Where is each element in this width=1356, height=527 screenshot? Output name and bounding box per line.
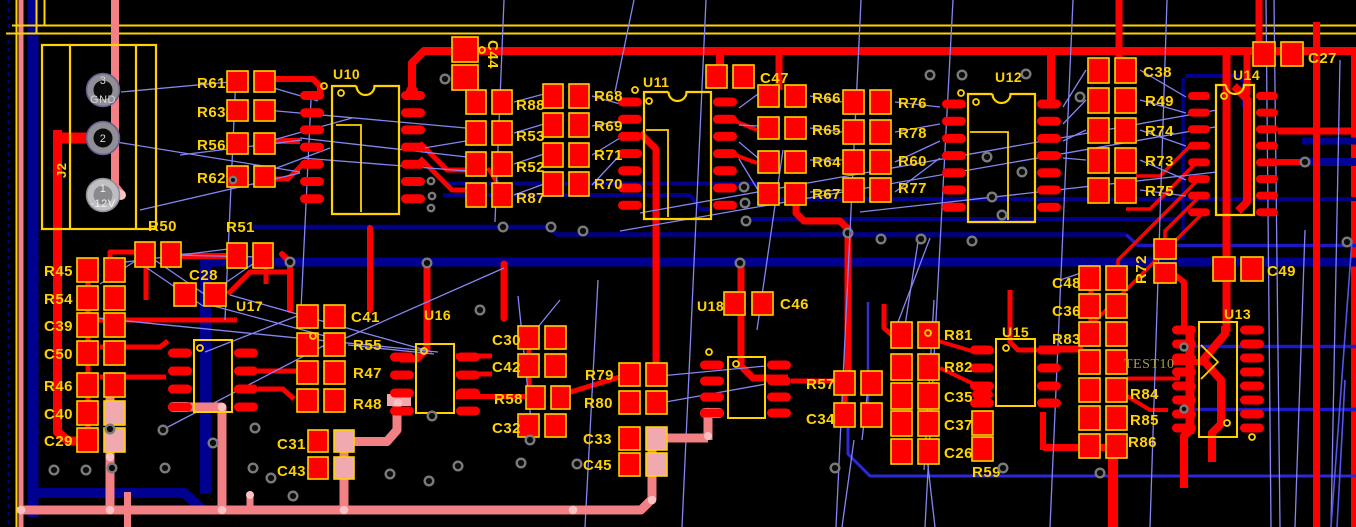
svg-text:R69: R69	[594, 118, 623, 135]
wire: U18 to R57	[791, 379, 836, 384]
R78	[843, 120, 864, 144]
svg-text:R64: R64	[812, 154, 841, 171]
J2 pad 1 -12V	[87, 179, 120, 212]
C27	[1253, 42, 1275, 66]
silkscreen top border line 2	[37, 0, 1356, 34]
svg-text:R76: R76	[898, 95, 927, 112]
J2 pad 3 GND	[87, 74, 120, 107]
svg-text:R57: R57	[806, 376, 835, 393]
svg-text:R45: R45	[44, 263, 73, 280]
IC U15	[996, 339, 1035, 406]
svg-text:R61: R61	[197, 75, 226, 92]
wire: vertical x370	[367, 228, 373, 310]
vias	[441, 75, 450, 84]
R74	[1088, 118, 1109, 143]
wire: R67 to R57 long trace	[796, 205, 848, 372]
J2 pad 2	[87, 122, 120, 155]
svg-text:R67: R67	[812, 186, 841, 203]
svg-text:R58: R58	[494, 391, 523, 408]
svg-text:C48: C48	[1052, 275, 1081, 292]
R60	[843, 150, 864, 174]
R46	[77, 373, 98, 397]
wire: U15 feeds	[1010, 290, 1037, 350]
svg-text:R74: R74	[1145, 123, 1174, 140]
R86	[1079, 434, 1100, 458]
wire: U13 left pad bus	[1186, 326, 1195, 434]
svg-text:C38: C38	[1143, 64, 1172, 81]
capacitor C46	[724, 292, 745, 315]
pink trace: branch to U18	[652, 434, 708, 443]
svg-text:R79: R79	[585, 367, 614, 384]
wire: U17 to R47	[258, 369, 297, 374]
R69	[543, 113, 563, 137]
navy trace near U14	[1185, 76, 1244, 108]
wire: U16 to R58 trace	[456, 394, 527, 399]
wire: U14 right trace y162	[1278, 159, 1302, 165]
C37/C26 right pads	[972, 411, 993, 435]
R87	[466, 183, 486, 207]
svg-text:C37: C37	[944, 417, 973, 434]
svg-text:R85: R85	[1130, 412, 1159, 429]
svg-text:C39: C39	[44, 318, 73, 335]
R51	[227, 243, 247, 268]
svg-text:U17: U17	[236, 298, 263, 314]
svg-text:TEST10: TEST10	[1124, 357, 1174, 372]
svg-text:1: 1	[100, 183, 107, 195]
svg-text:U13: U13	[1224, 306, 1251, 322]
board edge dashed line	[8, 0, 10, 527]
svg-text:R75: R75	[1145, 183, 1174, 200]
svg-text:U16: U16	[424, 307, 451, 323]
pad row4	[1079, 350, 1100, 374]
wire: band to U16	[400, 264, 427, 359]
wire: via trace x290	[282, 254, 290, 310]
wire: J2 pad2 feed	[57, 133, 103, 144]
R80	[619, 391, 640, 414]
svg-text:-12V: -12V	[90, 198, 115, 210]
svg-text:C50: C50	[44, 346, 73, 363]
wire: U14 fanout diagonals	[1136, 146, 1190, 176]
wire: R86 column to bottom	[1108, 446, 1118, 527]
navy vertical trace x205	[200, 258, 211, 494]
R62	[227, 166, 248, 187]
svg-text:R86: R86	[1128, 434, 1157, 451]
svg-text:R62: R62	[197, 170, 226, 187]
C37	[891, 411, 912, 436]
R70	[543, 172, 563, 196]
navy trace bottom-left run	[33, 493, 203, 510]
R55	[297, 333, 318, 356]
R56	[227, 133, 248, 154]
R68	[543, 84, 563, 108]
svg-text:U10: U10	[333, 66, 360, 82]
silkscreen top border line 1	[45, 0, 1356, 26]
R57	[834, 371, 855, 395]
blue trace at C34	[867, 302, 870, 420]
C38	[1088, 58, 1109, 83]
pink trace: U16 pad to C31/C43	[344, 396, 397, 442]
svg-text:C30: C30	[492, 332, 521, 349]
pink trace: bottom horizontal run	[21, 440, 652, 510]
svg-text:R48: R48	[353, 396, 382, 413]
wire: R45 to R50 elbow	[110, 252, 136, 266]
svg-text:R82: R82	[944, 359, 973, 376]
svg-text:R66: R66	[812, 90, 841, 107]
wire: R50-R51 link	[172, 253, 238, 259]
wire: trace y377	[100, 375, 166, 380]
wire: vertical x741 to U18/C46	[741, 262, 788, 378]
R47	[297, 361, 318, 384]
navy trace left bar	[28, 0, 39, 494]
svg-text:C27: C27	[1308, 50, 1337, 67]
connector J2 outline	[42, 45, 156, 229]
R54	[77, 286, 98, 310]
blue trace y476 bottom right	[848, 428, 1356, 476]
C42	[518, 354, 539, 377]
wire: U14 inner trace	[1234, 86, 1247, 211]
navy trace y183 long	[443, 184, 1356, 200]
C48	[1079, 266, 1100, 290]
navy trace y195	[443, 195, 712, 209]
svg-text:R78: R78	[898, 125, 927, 142]
navy vertical x1183	[1181, 78, 1185, 240]
svg-text:R88: R88	[516, 97, 545, 114]
wire: trace y347	[100, 341, 168, 347]
C41	[297, 305, 318, 328]
navy bus band middle	[200, 258, 1356, 267]
C50	[77, 341, 98, 365]
svg-text:R71: R71	[594, 147, 623, 164]
svg-text:C32: C32	[492, 420, 521, 437]
wire: U13 inner trace	[1203, 326, 1225, 462]
R77	[843, 178, 864, 202]
IC U10	[332, 86, 399, 214]
svg-text:U18: U18	[697, 298, 724, 314]
wire: R50 down	[144, 267, 149, 300]
svg-text:U14: U14	[1233, 67, 1260, 83]
pink trace: vertical to J2 pad 1	[115, 0, 122, 195]
C31	[308, 430, 328, 452]
svg-text:R73: R73	[1145, 153, 1174, 170]
svg-text:R87: R87	[516, 190, 545, 207]
svg-text:C28: C28	[189, 267, 218, 284]
R71	[543, 143, 563, 167]
svg-text:R77: R77	[898, 180, 927, 197]
pink trace: U17 branch	[172, 407, 222, 512]
svg-text:GND: GND	[90, 94, 116, 106]
svg-text:C26: C26	[944, 445, 973, 462]
svg-text:R84: R84	[1130, 386, 1159, 403]
R49	[1088, 88, 1109, 113]
wire: vertical to C27	[1256, 0, 1263, 46]
R66	[758, 85, 779, 107]
R65	[758, 117, 779, 139]
svg-text:R65: R65	[812, 122, 841, 139]
svg-text:R50: R50	[148, 218, 177, 235]
C30	[518, 326, 539, 349]
wire: U10 diagonals to R52/R87	[420, 143, 468, 170]
IC U14	[1216, 85, 1254, 215]
R52	[466, 152, 486, 176]
wire: R51 down	[264, 268, 269, 284]
svg-text:C43: C43	[277, 463, 306, 480]
R53	[466, 121, 486, 145]
wire: top red bus	[412, 51, 1356, 89]
wire: trace y320	[92, 318, 237, 323]
IC U11	[644, 92, 711, 219]
capacitor C44	[452, 37, 478, 62]
blue trace y245 right	[1126, 235, 1356, 246]
wire: R81 entry	[884, 304, 893, 336]
R67	[758, 183, 779, 205]
svg-text:R59: R59	[972, 464, 1001, 481]
svg-text:R72: R72	[1133, 255, 1150, 284]
wire: C30 column links	[527, 349, 532, 356]
IC U16	[416, 344, 454, 413]
wire: U11 to R79 long trace	[640, 133, 656, 368]
R64	[758, 151, 779, 173]
R76	[843, 90, 864, 114]
pink trace: C40/C29 vertical	[106, 395, 115, 512]
pink trace: stub x250	[247, 493, 254, 512]
wire: bus drop to R66	[776, 53, 783, 90]
svg-text:J2: J2	[54, 163, 69, 178]
wire: R82 diagonals	[935, 340, 975, 352]
R81	[891, 322, 912, 348]
blue trace right y162	[1300, 158, 1356, 166]
R61	[227, 71, 248, 92]
svg-text:U11: U11	[643, 74, 669, 90]
wire: vertical x1316	[1313, 22, 1320, 527]
silkscreen border vertical	[16, 0, 18, 527]
svg-text:U12: U12	[995, 69, 1022, 85]
svg-text:C44: C44	[484, 40, 501, 69]
svg-text:R68: R68	[594, 88, 623, 105]
svg-text:C40: C40	[44, 406, 73, 423]
C35	[891, 383, 912, 409]
svg-text:3: 3	[100, 75, 107, 87]
wire: R84 links to U13	[1127, 377, 1180, 381]
svg-text:C46: C46	[780, 296, 809, 313]
R75	[1088, 178, 1109, 203]
svg-text:R63: R63	[197, 104, 226, 121]
C39	[77, 313, 98, 337]
R50	[135, 242, 155, 267]
svg-text:C36: C36	[1052, 303, 1081, 320]
R73	[1088, 148, 1109, 173]
wire: C28 elbow	[228, 272, 288, 294]
wire: U17 to R48	[258, 389, 294, 399]
svg-text:C34: C34	[806, 411, 835, 428]
R84	[1079, 378, 1100, 402]
svg-text:R70: R70	[594, 176, 623, 193]
wire: R72 to U13 bus	[1172, 273, 1184, 326]
svg-text:R55: R55	[353, 337, 382, 354]
R85	[1079, 406, 1100, 430]
C43	[308, 457, 328, 479]
svg-text:C47: C47	[760, 70, 789, 87]
svg-text:R81: R81	[944, 327, 973, 344]
R83	[1079, 322, 1100, 346]
C36	[1079, 294, 1100, 318]
wire: R62 to U10	[272, 161, 306, 179]
C33	[619, 427, 640, 450]
svg-text:C42: C42	[492, 359, 521, 376]
pink highlighted pads U18/U17	[700, 408, 724, 418]
svg-text:C29: C29	[44, 433, 73, 450]
R63	[227, 100, 248, 121]
C47	[706, 65, 727, 88]
R79	[619, 363, 640, 386]
wire: vertical x504	[501, 264, 508, 318]
C49	[1213, 257, 1235, 281]
C32	[518, 414, 539, 437]
R58	[526, 386, 545, 409]
pink junction dots	[17, 506, 26, 515]
yellow rings	[321, 83, 327, 89]
wire: bus drop to U12	[1047, 53, 1055, 103]
IC U17	[194, 340, 232, 412]
wire: U14 right trace y131	[1278, 128, 1356, 135]
svg-text:R47: R47	[353, 365, 382, 382]
svg-text:R56: R56	[197, 137, 226, 154]
svg-text:R51: R51	[226, 219, 255, 236]
navy trace right y140	[1302, 138, 1356, 145]
svg-text:C33: C33	[583, 431, 612, 448]
svg-text:C35: C35	[944, 389, 973, 406]
wire: vertical to C49	[1223, 53, 1231, 332]
svg-text:R53: R53	[516, 128, 545, 145]
blue trace y410 right	[1184, 408, 1356, 412]
C29	[77, 428, 98, 452]
wire: R56 stub	[276, 138, 300, 144]
IC U12	[968, 94, 1035, 222]
wire: bus drop to C47	[716, 51, 724, 72]
capacitor C28	[174, 283, 196, 306]
wire: left column links	[86, 280, 91, 288]
navy trace y219	[745, 217, 1175, 221]
IC U18	[728, 357, 765, 418]
IC U13	[1199, 322, 1237, 437]
svg-text:C41: C41	[351, 309, 380, 326]
svg-text:C49: C49	[1267, 263, 1296, 280]
svg-text:U15: U15	[1002, 324, 1029, 340]
R48	[297, 389, 318, 412]
svg-text:R49: R49	[1145, 93, 1174, 110]
wire: R57 to C34 link	[843, 395, 848, 404]
wire: R61 to U10 pin1	[270, 79, 320, 93]
wire: R58 to R79 diagonal	[557, 377, 620, 396]
wire: bus drop to U14	[1244, 54, 1251, 95]
resistor R72	[1154, 239, 1176, 259]
pink power trace left edge	[19, 0, 24, 527]
C45	[619, 453, 640, 476]
svg-text:R46: R46	[44, 378, 73, 395]
blue trace y346 right	[1184, 345, 1356, 349]
red trace right edge	[1351, 48, 1356, 527]
R45	[77, 258, 98, 282]
wire: vertical to C38	[1116, 0, 1123, 62]
R88	[466, 90, 486, 114]
svg-text:R80: R80	[584, 395, 613, 412]
C26	[891, 439, 912, 464]
wire: U11 right pad stubs	[735, 121, 757, 130]
C34	[834, 403, 855, 427]
svg-text:R83: R83	[1052, 331, 1081, 348]
svg-text:R52: R52	[516, 159, 545, 176]
C40	[77, 401, 98, 425]
R82	[891, 354, 912, 380]
svg-text:2: 2	[100, 133, 107, 145]
svg-text:C45: C45	[583, 457, 612, 474]
navy thin trace y227	[253, 227, 1126, 235]
blue steep lines right side	[1331, 240, 1352, 527]
pink trace: stub x127 below line	[124, 492, 131, 527]
svg-text:R54: R54	[44, 291, 73, 308]
svg-text:C31: C31	[277, 436, 306, 453]
ratsnest lines	[260, 84, 318, 101]
svg-text:R60: R60	[898, 153, 927, 170]
